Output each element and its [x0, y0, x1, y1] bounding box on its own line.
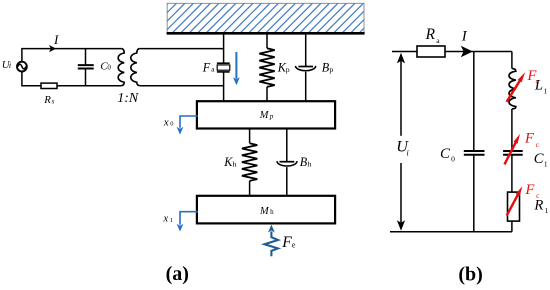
middle branch capacitor C0 (b) [473, 52, 475, 151]
AC source Ui [17, 62, 27, 72]
mass Mp box [197, 101, 335, 128]
x0 displacement arrow [180, 116, 198, 128]
wall (fixed frame) hatched block [138, 3, 390, 34]
wire: Rs to transformer primary bottom [57, 85, 121, 87]
svg-text:R: R [533, 197, 543, 213]
svg-text:1: 1 [545, 206, 549, 215]
red variability arrow on R1 [507, 193, 519, 215]
svg-text:h: h [308, 159, 312, 168]
red variability arrow on C1 [505, 141, 517, 164]
damper Bp cup [298, 66, 313, 68]
external force Fe arrow [268, 225, 275, 233]
svg-text:h: h [232, 159, 236, 168]
svg-text:e: e [292, 241, 296, 250]
svg-text:p: p [286, 65, 290, 74]
svg-text:F: F [524, 131, 535, 147]
current arrow I (b) [461, 46, 473, 58]
strut wall to Fa element [223, 33, 225, 62]
svg-text:h: h [270, 208, 274, 216]
capacitor C1 [503, 150, 523, 152]
resistor R1 [508, 192, 520, 221]
svg-text:p: p [329, 65, 333, 74]
strut Fa to Mp [223, 72, 225, 101]
svg-text:x: x [162, 213, 168, 225]
strut wall to spring Kp [266, 33, 268, 48]
svg-text:I: I [53, 32, 59, 47]
spring Kp [259, 48, 274, 87]
strut Kp to Mp [266, 87, 268, 101]
svg-text:F: F [525, 182, 536, 198]
svg-text:0: 0 [107, 64, 111, 72]
svg-text:i: i [9, 61, 11, 70]
svg-text:(a): (a) [166, 263, 189, 285]
svg-text:x: x [163, 116, 169, 128]
x1 displacement arrow [180, 212, 198, 225]
svg-text:R: R [425, 26, 436, 43]
right branch: inductor L1 [511, 52, 513, 69]
capacitor C0 (a) [78, 49, 94, 86]
bottom wire (b) [390, 231, 512, 233]
svg-text:L: L [534, 78, 543, 94]
wire: source bottom to Rs [22, 72, 41, 86]
spring Kh [242, 143, 257, 181]
transformer secondary winding [131, 49, 140, 86]
red variability arrow on L1 [507, 80, 521, 102]
svg-text:C: C [440, 146, 451, 162]
svg-text:0: 0 [170, 121, 173, 128]
svg-text:M: M [259, 110, 270, 121]
svg-text:1: 1 [170, 217, 173, 224]
wall bottom thick line [167, 32, 365, 35]
svg-text:(b): (b) [458, 264, 482, 286]
piezo element Fa [217, 62, 230, 64]
svg-text:F: F [281, 234, 292, 251]
voltage arrow Ui [397, 53, 405, 64]
svg-text:F: F [202, 60, 211, 74]
strut Mp to damper Bh [286, 129, 288, 162]
strut Mp to spring Kh [249, 129, 251, 143]
svg-text:1:N: 1:N [117, 91, 139, 106]
svg-text:p: p [269, 112, 274, 120]
resistor Ra [417, 46, 445, 57]
svg-text:C: C [534, 151, 544, 167]
svg-text:R: R [43, 94, 51, 106]
blue drive arrow [235, 52, 237, 79]
strut Bh to Mh [286, 167, 288, 196]
svg-text:0: 0 [451, 155, 455, 164]
strut Kh to Mh [249, 181, 251, 196]
svg-text:s: s [52, 97, 55, 105]
strut wall to damper Bp [305, 33, 307, 66]
transformer primary winding [118, 49, 124, 86]
svg-text:1: 1 [544, 159, 548, 168]
top wire (b) [392, 51, 417, 53]
svg-text:M: M [259, 206, 270, 217]
svg-text:1: 1 [544, 86, 548, 95]
damper Bh cup [280, 161, 295, 163]
resistor Rs [41, 83, 57, 88]
mass Mh box [197, 196, 335, 224]
current arrow I (a) [49, 45, 56, 52]
wire Ra to node [445, 51, 512, 53]
wire: source top to transformer primary top [22, 49, 121, 62]
wire: secondary top to Fa strut [140, 48, 224, 50]
strut Bp to Mp [305, 72, 307, 101]
wire: secondary bottom to Fa strut [140, 85, 224, 87]
